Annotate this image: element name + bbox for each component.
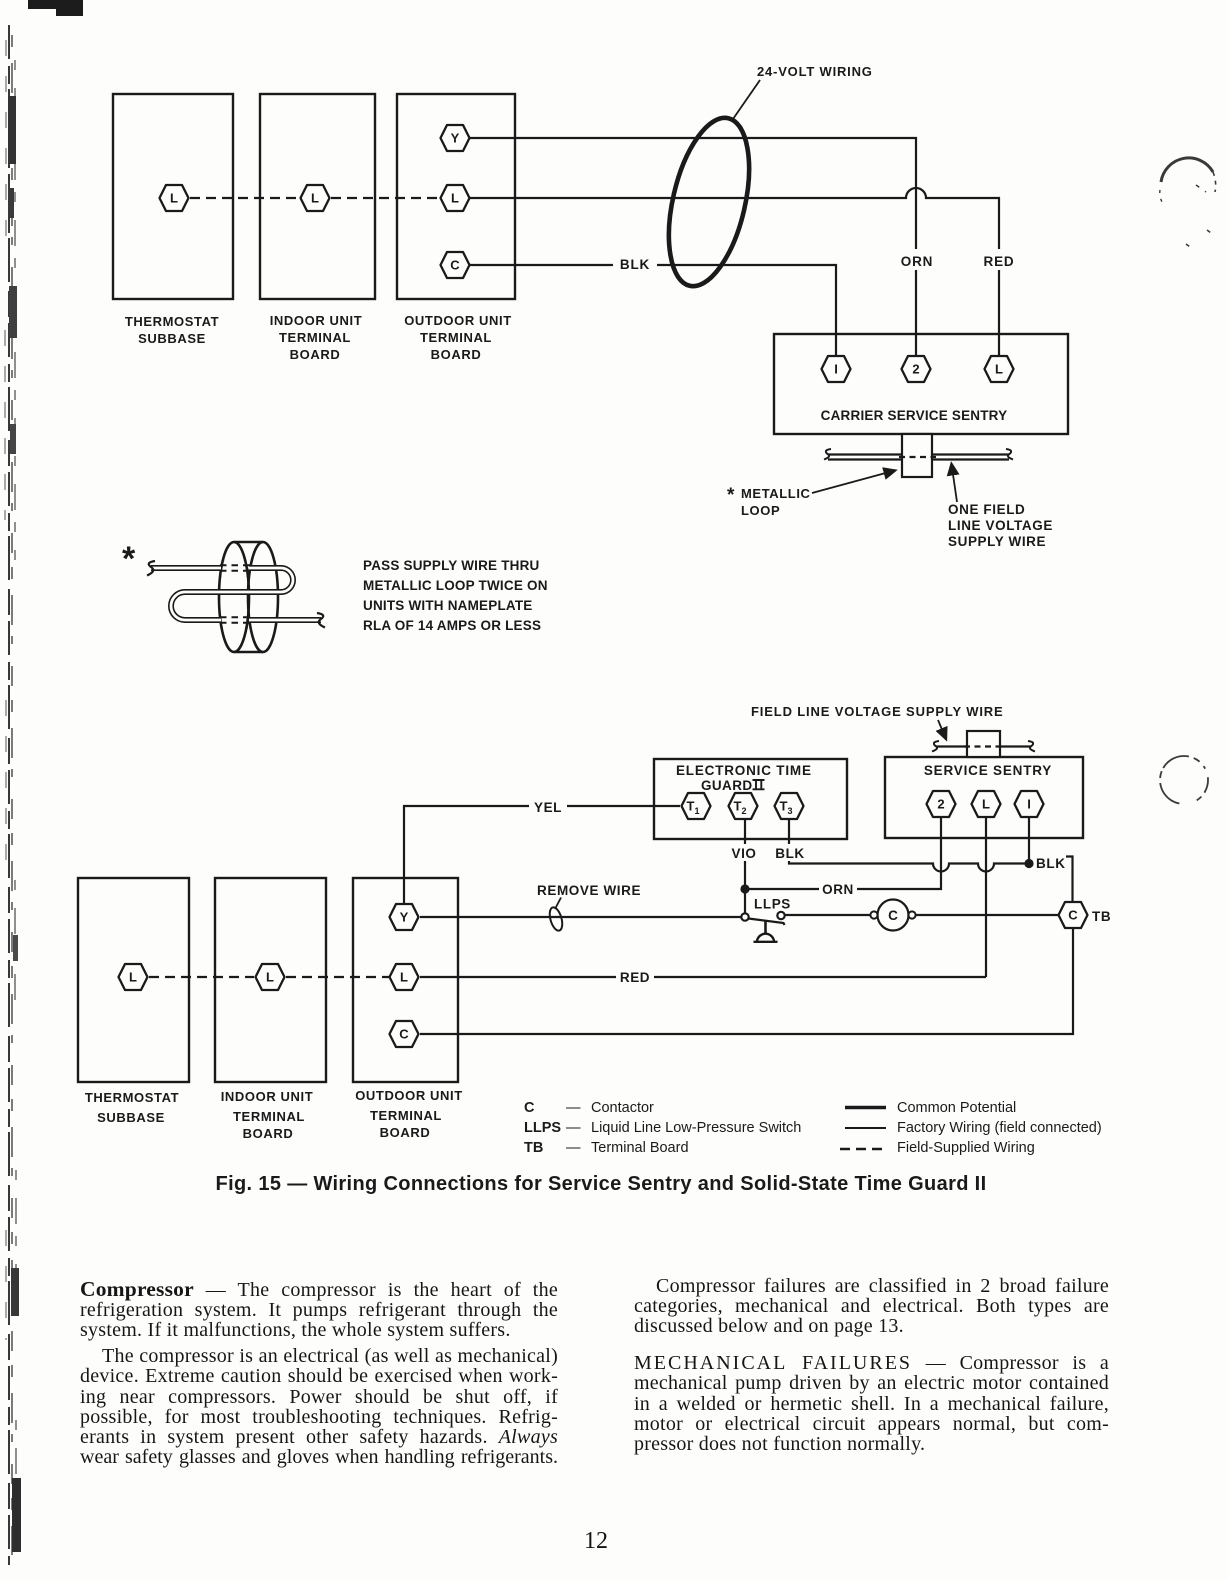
svg-text:TERMINAL: TERMINAL <box>279 330 351 345</box>
svg-text:Y: Y <box>451 131 460 146</box>
terminal L on thermostat subbase (lower) <box>119 964 148 990</box>
legend: LLPS <box>524 1120 801 1136</box>
label: * METALLIC LOOP <box>727 485 811 518</box>
svg-text:THERMOSTAT: THERMOSTAT <box>125 314 219 329</box>
svg-text:I: I <box>834 362 838 377</box>
box: indoor unit terminal board (lower diagram) <box>215 878 326 1082</box>
scan artifact: right margin punch-hole rings <box>1151 158 1217 1426</box>
legend <box>524 1100 1102 1156</box>
contactor coil C <box>870 900 915 931</box>
terminal Y on outdoor board (lower) <box>390 904 419 930</box>
svg-text:*: * <box>727 485 735 506</box>
svg-text:SERVICE SENTRY: SERVICE SENTRY <box>924 763 1052 778</box>
box: thermostat subbase (lower diagram) <box>78 878 189 1082</box>
wire: dashed thermostat L to indoor L (lower) <box>149 976 254 978</box>
box: carrier service sentry <box>774 334 1068 434</box>
legend: field-supplied wiring line sample <box>840 1140 1035 1156</box>
page number <box>556 1529 636 1553</box>
wire: outdoor C to terminal board C <box>420 929 1073 1034</box>
terminal T3 on electronic time guard <box>775 793 804 819</box>
svg-text:SUBBASE: SUBBASE <box>138 331 206 346</box>
svg-text:PASS SUPPLY WIRE THRU: PASS SUPPLY WIRE THRU <box>363 558 539 573</box>
svg-text:C: C <box>524 1100 535 1116</box>
metallic loop cylinder <box>219 542 278 652</box>
svg-text:YEL: YEL <box>534 800 562 815</box>
svg-text:INDOOR UNIT: INDOOR UNIT <box>270 313 363 328</box>
supply wire (double line) through loop <box>147 542 325 652</box>
label: ONE FIELD LINE VOLTAGE SUPPLY WIRE <box>948 502 1053 549</box>
svg-text:OUTDOOR UNIT: OUTDOOR UNIT <box>404 313 512 328</box>
terminal I on carrier service sentry <box>822 356 851 382</box>
svg-text:VIO: VIO <box>731 846 756 861</box>
svg-text:METALLIC: METALLIC <box>741 486 811 501</box>
svg-text:L: L <box>129 970 137 985</box>
wire: service sentry L down to RED run <box>985 818 987 977</box>
wire: ORN from junction to service sentry 2 <box>745 818 941 889</box>
svg-text:L: L <box>170 191 178 206</box>
terminal L on indoor board (lower) <box>256 964 285 990</box>
svg-text:TERMINAL: TERMINAL <box>370 1108 442 1123</box>
wire: BLK, C of outdoor board to terminal I of service sentry <box>470 265 836 356</box>
wire: dashed indoor L to outdoor L (lower) <box>286 976 389 978</box>
svg-text:LINE VOLTAGE: LINE VOLTAGE <box>948 518 1053 533</box>
svg-text:FIELD LINE VOLTAGE SUPPLY WIR: FIELD LINE VOLTAGE SUPPLY WIRE <box>751 704 1004 719</box>
junction dot VIO/ORN <box>740 884 749 893</box>
label: box captions upper row <box>125 313 512 362</box>
svg-text:Contactor: Contactor <box>591 1100 654 1116</box>
leader line: 24-volt wiring label to loop <box>733 80 760 119</box>
wire: L of outdoor board to terminal L of service sentry (hop over vertical) <box>470 188 999 356</box>
svg-text:L: L <box>400 970 408 985</box>
caption: Fig. 15 <box>216 1173 987 1195</box>
svg-text:LLPS: LLPS <box>524 1120 561 1136</box>
svg-text:BLK: BLK <box>775 846 805 861</box>
svg-text:Fig. 15 — Wiring Connections f: Fig. 15 — Wiring Connections for Service… <box>216 1173 987 1195</box>
label: box captions lower row <box>85 1088 463 1141</box>
terminal L on outdoor board (upper) <box>441 185 470 211</box>
label: YEL <box>529 798 567 815</box>
svg-text:SUPPLY WIRE: SUPPLY WIRE <box>948 534 1046 549</box>
svg-text:L: L <box>451 191 459 206</box>
svg-text:REMOVE WIRE: REMOVE WIRE <box>537 883 641 898</box>
label: TB <box>1092 909 1111 924</box>
terminal L on service sentry (lower) <box>972 791 1001 817</box>
svg-text:—: — <box>566 1120 581 1136</box>
svg-text:Common Potential: Common Potential <box>897 1100 1016 1116</box>
label: BLK (upper diagram) <box>613 253 657 272</box>
svg-text:LOOP: LOOP <box>741 503 780 518</box>
field line voltage supply wire through loop <box>932 741 1035 752</box>
svg-text:BLK: BLK <box>1036 856 1066 871</box>
wire: dashed field wire thermostat L to indoor L <box>190 197 299 199</box>
terminal Y on outdoor board (upper) <box>441 125 470 151</box>
wire: VIO from T2 down to LLPS junction <box>744 819 746 914</box>
svg-text:TB: TB <box>1092 909 1111 924</box>
label: pass supply wire thru metallic loop note <box>363 558 548 633</box>
label: FIELD LINE VOLTAGE SUPPLY WIRE <box>751 704 1004 719</box>
label: CARRIER SERVICE SENTRY <box>821 408 1008 423</box>
svg-text:ELECTRONIC TIME: ELECTRONIC TIME <box>676 763 812 778</box>
terminal T1 on electronic time guard <box>682 793 711 819</box>
arrow: one field line voltage supply wire pointer <box>952 464 958 502</box>
box: thermostat subbase (upper diagram) <box>113 94 233 299</box>
box: outdoor unit terminal board (lower diagram) <box>353 878 458 1082</box>
svg-text:L: L <box>995 362 1003 377</box>
svg-text:I: I <box>1027 797 1031 812</box>
label: BLK at junction right <box>1035 854 1066 871</box>
body text left column <box>80 1279 558 1467</box>
terminal C on outdoor terminal board TB <box>1059 902 1088 928</box>
label: REMOVE WIRE <box>537 883 641 898</box>
svg-text:OUTDOOR UNIT: OUTDOOR UNIT <box>355 1088 463 1103</box>
terminal 2 on carrier service sentry <box>902 356 931 382</box>
svg-text:ONE FIELD: ONE FIELD <box>948 502 1025 517</box>
svg-text:GUARD: GUARD <box>701 778 753 793</box>
svg-text:RED: RED <box>620 970 650 985</box>
wire: RED from outdoor L to service sentry L riser <box>420 976 986 978</box>
legend: factory wiring line sample <box>845 1120 1102 1136</box>
body text right column <box>634 1276 1109 1454</box>
svg-text:CARRIER SERVICE SENTRY: CARRIER SERVICE SENTRY <box>821 408 1008 423</box>
svg-text:BOARD: BOARD <box>290 347 341 362</box>
svg-text:Terminal Board: Terminal Board <box>591 1140 689 1156</box>
LLPS switch symbol <box>741 912 784 942</box>
svg-text:SUBBASE: SUBBASE <box>97 1110 165 1125</box>
wire: service sentry I down to BLK junction <box>1028 818 1030 862</box>
svg-text:Factory Wiring (field connecte: Factory Wiring (field connected) <box>897 1120 1102 1136</box>
label: SERVICE SENTRY <box>924 763 1052 778</box>
label: RED (lower) <box>616 968 654 985</box>
terminal I on service sentry (lower) <box>1015 791 1044 817</box>
scan artifact: left edge streaks <box>0 0 30 1580</box>
label: LLPS <box>754 897 791 912</box>
svg-text:ORN: ORN <box>901 254 933 269</box>
terminal L on outdoor board (lower) <box>390 964 419 990</box>
figure: supply wire passed twice through metallic loop <box>122 540 548 652</box>
svg-text:BOARD: BOARD <box>431 347 482 362</box>
label: VIO <box>727 844 761 861</box>
legend: TB <box>524 1140 689 1156</box>
svg-text:—: — <box>566 1140 581 1156</box>
svg-text:BOARD: BOARD <box>380 1125 431 1140</box>
svg-text:*: * <box>122 540 136 578</box>
remove wire loop mark <box>547 898 564 933</box>
svg-text:TERMINAL: TERMINAL <box>233 1109 305 1124</box>
svg-text:RED: RED <box>984 254 1015 269</box>
terminal L on indoor board (upper) <box>301 185 330 211</box>
wire: dashed field wire indoor L to outdoor L <box>331 197 440 199</box>
one field line voltage supply wire through loop <box>824 449 1013 460</box>
svg-text:Liquid Line Low-Pressure Switc: Liquid Line Low-Pressure Switch <box>591 1120 801 1136</box>
svg-text:24-VOLT WIRING: 24-VOLT WIRING <box>757 64 873 79</box>
svg-text:2: 2 <box>937 797 944 812</box>
terminal T2 on electronic time guard <box>729 793 758 819</box>
svg-text:RLA OF 14 AMPS OR LESS: RLA OF 14 AMPS OR LESS <box>363 618 541 633</box>
svg-text:TB: TB <box>524 1140 543 1156</box>
junction dot BLK <box>1024 859 1033 868</box>
label: BLK below T3 <box>773 844 807 861</box>
svg-text:C: C <box>399 1027 409 1042</box>
legend: common potential line sample <box>845 1100 1016 1116</box>
svg-text:—: — <box>566 1100 581 1116</box>
box: outdoor unit terminal board (upper diagram) <box>397 94 515 299</box>
arrow: field line voltage supply wire pointer <box>938 720 946 739</box>
scan artifact: top-left dark bar <box>28 0 82 9</box>
svg-text:TERMINAL: TERMINAL <box>420 330 492 345</box>
box: service sentry (lower) <box>885 757 1083 838</box>
svg-text:ORN: ORN <box>822 882 854 897</box>
svg-text:BOARD: BOARD <box>243 1126 294 1141</box>
terminal L on thermostat subbase (upper) <box>160 185 189 211</box>
label: C in contactor <box>888 908 898 923</box>
terminal C on outdoor board (lower) <box>390 1021 419 1047</box>
svg-text:C: C <box>888 908 898 923</box>
svg-text:L: L <box>266 970 274 985</box>
metallic loop ellipse (24-volt wiring passes through) <box>655 110 764 294</box>
svg-text:C: C <box>1068 908 1078 923</box>
wire: BLK bracket down to TB hexagon <box>1063 857 1073 902</box>
terminal C on outdoor board (upper) <box>441 252 470 278</box>
svg-text:INDOOR UNIT: INDOOR UNIT <box>221 1089 314 1104</box>
wire: BLK from T3 across to terminal board C (bus) <box>789 819 1029 872</box>
metallic loop rectangle below carrier service sentry <box>902 434 932 477</box>
arrow: metallic loop label pointer <box>812 471 895 494</box>
svg-text:C: C <box>450 258 460 273</box>
wire: LLPS to contactor coil <box>785 914 870 916</box>
legend: C contactor <box>524 1100 654 1116</box>
svg-text:METALLIC LOOP TWICE ON: METALLIC LOOP TWICE ON <box>363 578 548 593</box>
wire: contactor coil to terminal board C <box>916 914 1058 916</box>
svg-text:Field-Supplied Wiring: Field-Supplied Wiring <box>897 1140 1035 1156</box>
label: ORN (upper diagram) <box>899 249 935 270</box>
box: electronic time guard II <box>654 759 847 839</box>
label: ELECTRONIC TIME GUARD II <box>676 763 812 793</box>
svg-text:BLK: BLK <box>620 257 650 272</box>
svg-text:L: L <box>311 191 319 206</box>
svg-text:2: 2 <box>912 362 919 377</box>
svg-text:THERMOSTAT: THERMOSTAT <box>85 1090 179 1105</box>
svg-text:Y: Y <box>400 910 409 925</box>
field line voltage loop rectangle on service sentry <box>967 731 1000 757</box>
svg-text:LLPS: LLPS <box>754 897 791 912</box>
wire: YEL from T1 of time guard down to outdoor Y <box>404 806 680 904</box>
box: indoor unit terminal board (upper diagram) <box>260 94 375 299</box>
svg-text:UNITS WITH NAMEPLATE: UNITS WITH NAMEPLATE <box>363 598 533 613</box>
label: RED (upper diagram) <box>981 249 1017 270</box>
terminal 2 on service sentry (lower) <box>927 791 956 817</box>
label: 24-VOLT WIRING <box>757 64 873 79</box>
label: ORN (lower) <box>819 880 857 897</box>
wire: outdoor Y to LLPS (with removed-wire mark) <box>420 916 741 918</box>
wire: Y of outdoor board to terminal 2 of service sentry <box>470 138 916 356</box>
svg-text:L: L <box>982 797 990 812</box>
terminal L on carrier service sentry <box>985 356 1014 382</box>
